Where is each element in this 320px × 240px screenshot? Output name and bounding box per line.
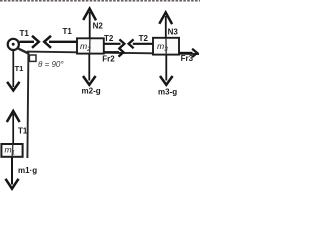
pulley mount strut bbox=[18, 49, 28, 54]
scan edge top band bbox=[0, 0, 200, 2]
right-angle marker bbox=[29, 55, 36, 61]
svg-text:Fr2: Fr2 bbox=[102, 55, 115, 64]
table leg bbox=[27, 53, 28, 159]
block m1 bbox=[1, 144, 22, 157]
tension T2 arrow left (on m3) bbox=[129, 39, 153, 48]
tension T1 arrow down (below pulley) bbox=[7, 51, 19, 91]
normal force N2 arrow bbox=[83, 9, 96, 39]
block m2 bbox=[77, 38, 104, 53]
svg-text:T1: T1 bbox=[15, 64, 24, 73]
weight m2-g arrow bbox=[83, 54, 96, 85]
friction Fr3 arrow bbox=[179, 49, 197, 57]
T1/m1-g shaft through block m1 bbox=[11, 145, 14, 157]
svg-text:m1·g: m1·g bbox=[18, 166, 37, 175]
weight m1-g arrow bbox=[6, 157, 19, 189]
svg-text:N2: N2 bbox=[93, 21, 104, 30]
block m3 bbox=[153, 38, 179, 55]
svg-text:T1: T1 bbox=[18, 127, 28, 136]
pulley P bbox=[8, 39, 19, 50]
svg-text:Fr3: Fr3 bbox=[181, 54, 194, 63]
tension T2 arrow right (from m2) bbox=[104, 39, 124, 48]
tension T1 arrow up (on m1) bbox=[7, 111, 20, 144]
N2/m2-g shaft through block m2 bbox=[89, 39, 91, 54]
svg-text:m2-g: m2-g bbox=[82, 87, 101, 96]
svg-text:T2: T2 bbox=[139, 34, 149, 43]
weight m3-g arrow bbox=[160, 55, 173, 85]
svg-text:T2: T2 bbox=[104, 34, 114, 43]
normal force N3 arrow bbox=[159, 12, 172, 37]
svg-text:T1: T1 bbox=[63, 27, 73, 36]
friction Fr2 arrow bbox=[104, 48, 124, 57]
N3/m3-g shaft through block m3 bbox=[165, 39, 167, 55]
table top line bbox=[27, 52, 199, 54]
svg-text:N3: N3 bbox=[168, 28, 179, 37]
svg-text:m3-g: m3-g bbox=[158, 87, 177, 96]
svg-text:θ = 90°: θ = 90° bbox=[38, 60, 64, 69]
tension T1 arrow left (on m2) bbox=[44, 36, 77, 48]
svg-text:T1: T1 bbox=[20, 29, 30, 38]
tension T1 arrow right (from pulley) bbox=[20, 36, 39, 48]
